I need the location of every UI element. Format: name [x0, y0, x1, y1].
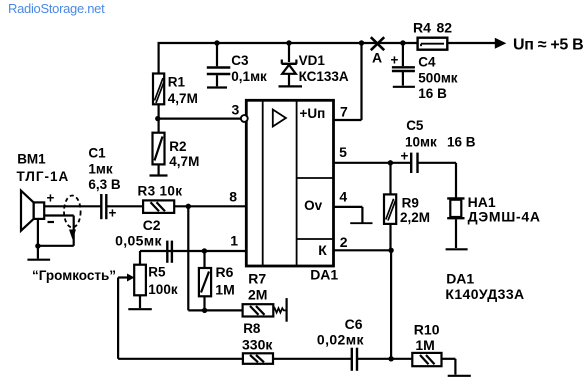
- node 3 open circle: [241, 115, 248, 122]
- resistor R10: [412, 322, 441, 367]
- svg-text:82: 82: [437, 20, 453, 36]
- svg-text:+: +: [109, 206, 117, 221]
- potentiometer R5: [128, 251, 178, 309]
- svg-text:0,05мк: 0,05мк: [115, 233, 162, 249]
- svg-text:С5: С5: [406, 118, 424, 133]
- wiper arrow into R5: [118, 274, 134, 282]
- svg-text:+: +: [401, 149, 409, 164]
- svg-text:1М: 1М: [215, 282, 234, 298]
- wire pin 2 vertical to bottom rail: [390, 250, 392, 358]
- wire R10 to ground: [442, 359, 456, 375]
- zener diode VD1: [279, 40, 349, 86]
- svg-text:2: 2: [340, 234, 348, 250]
- svg-text:330к: 330к: [242, 337, 273, 353]
- wire pin 2: [334, 249, 392, 251]
- svg-text:1: 1: [230, 233, 238, 249]
- capacitor C4: [391, 40, 458, 101]
- mic bottom terminal wire: [38, 216, 74, 246]
- svg-text:ВМ1: ВМ1: [17, 151, 46, 166]
- wire C5 to HA1: [418, 163, 456, 198]
- resistor R6: [199, 248, 235, 313]
- svg-text:1М: 1М: [415, 337, 434, 353]
- top supply rail wire: [158, 42, 497, 44]
- resistor R1: [153, 43, 198, 119]
- svg-text:10мк: 10мк: [405, 135, 437, 150]
- pin 7 branch wire: [334, 40, 364, 120]
- resistor R9: [384, 163, 430, 251]
- label DA1 type: [445, 271, 524, 302]
- capacitor C5: [401, 118, 476, 173]
- svg-text:C4: C4: [418, 54, 436, 69]
- svg-text:RadioStorage.net: RadioStorage.net: [8, 1, 105, 16]
- vertical wire pin8 node down to R7 line: [187, 206, 189, 310]
- svg-text:R9: R9: [402, 196, 419, 211]
- svg-text:ТЛГ-1А: ТЛГ-1А: [17, 169, 70, 184]
- capacitor C2: [115, 217, 172, 263]
- riser wire from wiper to bottom rail: [117, 278, 119, 359]
- wire R3 to pin 8: [174, 205, 245, 207]
- resistor R7: [243, 270, 274, 316]
- svg-text:4: 4: [339, 189, 347, 205]
- svg-text:ДЭМШ-4А: ДЭМШ-4А: [468, 208, 541, 224]
- svg-text:С1: С1: [88, 146, 106, 161]
- squiggle wire after R7 and end bar: [273, 298, 286, 322]
- wire pin 1 line: [140, 250, 245, 252]
- svg-text:R3 10к: R3 10к: [138, 184, 183, 199]
- resistor R3: [138, 184, 183, 213]
- svg-text:4,7М: 4,7М: [168, 91, 198, 106]
- X break mark node A: [371, 37, 384, 50]
- svg-text:16 В: 16 В: [447, 135, 476, 150]
- junction pin8 node: [186, 204, 191, 209]
- svg-text:7: 7: [340, 104, 348, 120]
- svg-text:DA1: DA1: [446, 271, 474, 287]
- ground (mic): [27, 246, 50, 260]
- mic top terminal wire: [44, 205, 101, 207]
- resistor R2: [150, 119, 200, 176]
- junction bottom rail node: [388, 356, 393, 361]
- svg-text:4,7М: 4,7М: [169, 154, 199, 169]
- wire C1 to R3: [106, 205, 143, 207]
- svg-text:R8: R8: [243, 321, 261, 336]
- microphone BM1 (speaker symbol): [17, 151, 70, 230]
- svg-text:+: +: [391, 53, 399, 68]
- svg-text:3: 3: [232, 102, 240, 118]
- earphone HA1: [447, 194, 541, 248]
- output arrow to Uп: [495, 38, 507, 49]
- shield (dashed oval with arrow): [64, 196, 81, 228]
- wire pin 4 stub: [334, 207, 373, 223]
- bottom rail wire: [118, 358, 243, 360]
- op-amp U1 / DA1 body: [246, 100, 338, 282]
- svg-text:VD1: VD1: [299, 53, 326, 68]
- svg-text:R10: R10: [414, 322, 440, 338]
- wire C6 to R10: [357, 358, 412, 360]
- svg-text:5: 5: [339, 144, 347, 160]
- svg-text:DA1: DA1: [310, 267, 338, 283]
- svg-text:6,3 В: 6,3 В: [88, 177, 121, 192]
- svg-text:0,1мк: 0,1мк: [231, 69, 267, 84]
- svg-text:+Uп: +Uп: [300, 106, 326, 121]
- svg-text:Оv: Оv: [304, 198, 323, 213]
- svg-text:R2: R2: [169, 139, 186, 154]
- svg-text:+: +: [47, 191, 55, 206]
- junction node R1/R2/pin3: [155, 116, 160, 121]
- svg-text:R4: R4: [413, 20, 431, 36]
- wire R8 to C6: [273, 358, 352, 360]
- svg-text:1мк: 1мк: [88, 161, 112, 176]
- wire R7 line: [188, 309, 242, 311]
- svg-text:C3: C3: [231, 53, 249, 68]
- svg-text:100к: 100к: [148, 282, 178, 297]
- svg-text:R7: R7: [248, 270, 266, 286]
- svg-text:16 В: 16 В: [418, 86, 447, 101]
- svg-text:2,2М: 2,2М: [400, 210, 430, 225]
- svg-text:К140УД33А: К140УД33А: [445, 286, 524, 302]
- svg-text:R1: R1: [168, 75, 186, 90]
- capacitor C3: [207, 40, 267, 87]
- svg-text:2М: 2М: [248, 286, 267, 302]
- ground (HA1): [446, 248, 468, 250]
- capacitor C6: [317, 316, 365, 371]
- wire to pin 3: [158, 117, 242, 119]
- svg-text:К: К: [318, 242, 327, 258]
- svg-text:C6: C6: [345, 316, 363, 332]
- resistor R8: [242, 321, 273, 364]
- svg-text:R5: R5: [148, 265, 166, 280]
- svg-text:0,02мк: 0,02мк: [317, 331, 365, 347]
- ground (output RC): [448, 375, 471, 377]
- svg-text:500мк: 500мк: [418, 70, 458, 85]
- resistor R4 (fuse-style body): [413, 20, 452, 50]
- svg-text:КС133А: КС133А: [299, 69, 349, 84]
- wire pin 5: [334, 162, 411, 164]
- svg-text:С2: С2: [143, 217, 161, 233]
- capacitor C1: [88, 146, 121, 221]
- svg-text:“Громкость”: “Громкость”: [32, 268, 116, 283]
- svg-text:8: 8: [229, 189, 237, 205]
- svg-text:Uп ≈ +5 В: Uп ≈ +5 В: [513, 37, 583, 54]
- svg-text:А: А: [372, 50, 382, 66]
- junction mic ground: [35, 243, 40, 248]
- svg-text:R6: R6: [216, 264, 234, 280]
